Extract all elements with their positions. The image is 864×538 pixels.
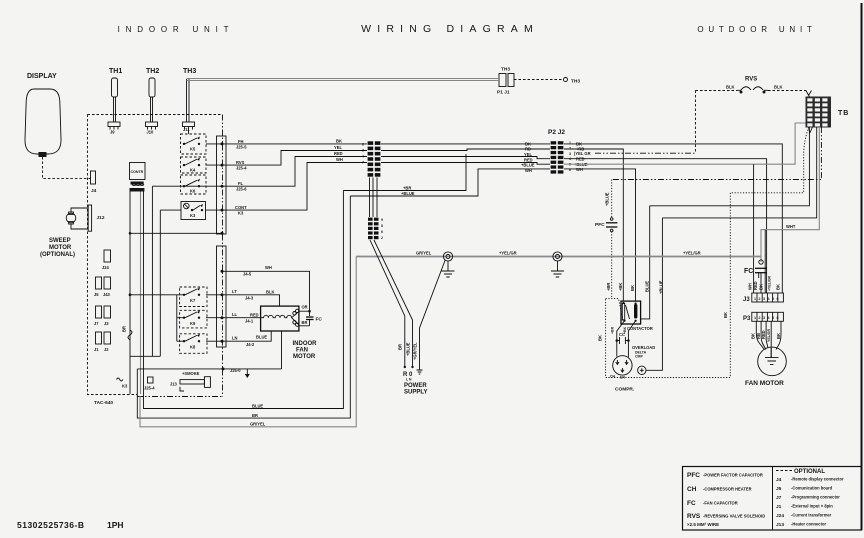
svg-text:GR/YEL: GR/YEL: [416, 251, 432, 256]
svg-text:BK: BK: [776, 284, 781, 290]
svg-text:YEL: YEL: [524, 152, 532, 157]
svg-text:-External input × 8pin: -External input × 8pin: [791, 504, 833, 509]
svg-text:J4-1: J4-1: [245, 319, 254, 324]
svg-text:J4: J4: [91, 188, 97, 194]
svg-text:1PH: 1PH: [107, 520, 124, 530]
svg-text:-FAN CAPACITOR: -FAN CAPACITOR: [703, 501, 738, 506]
svg-text:J2: J2: [104, 347, 109, 352]
svg-text:4: 4: [362, 155, 364, 159]
svg-text:+BK: +BK: [623, 326, 627, 334]
svg-text:LT: LT: [232, 289, 237, 294]
svg-text:INDOOR: INDOOR: [293, 341, 318, 347]
svg-text:123456: 123456: [754, 316, 781, 320]
svg-text:RVS: RVS: [236, 160, 245, 165]
svg-text:-Heater connector: -Heater connector: [791, 522, 826, 527]
svg-text:BK: BK: [776, 333, 781, 339]
svg-text:FL: FL: [238, 181, 244, 186]
svg-text:8: 8: [381, 224, 383, 228]
svg-text:FC: FC: [316, 317, 323, 323]
svg-text:WIRING DIAGRAM: WIRING DIAGRAM: [361, 23, 539, 35]
svg-text:WH: WH: [336, 157, 343, 162]
svg-text:BLK: BLK: [726, 85, 734, 90]
svg-text:TAC-640: TAC-640: [94, 400, 113, 406]
svg-text:J3: J3: [743, 297, 750, 303]
svg-text:PFC: PFC: [687, 472, 700, 479]
svg-text:DISPLAY: DISPLAY: [27, 73, 57, 80]
svg-text:J25-5: J25-5: [236, 145, 247, 150]
svg-text:+BLUE: +BLUE: [521, 163, 535, 168]
svg-text:J11: J11: [183, 127, 190, 132]
svg-text:BK: BK: [723, 312, 728, 318]
svg-text:P1 J1: P1 J1: [497, 90, 510, 96]
svg-text:-Current transformer: -Current transformer: [791, 513, 832, 518]
svg-text:J5: J5: [776, 486, 782, 492]
svg-text:WHT: WHT: [786, 224, 796, 229]
svg-text:3: 3: [362, 149, 364, 153]
svg-text:K7: K7: [190, 298, 196, 303]
svg-text:J12: J12: [97, 215, 105, 221]
svg-text:BK: BK: [598, 335, 603, 341]
svg-text:J25-4: J25-4: [144, 386, 155, 391]
svg-text:WH: WH: [576, 167, 583, 172]
svg-text:WH: WH: [265, 265, 272, 270]
svg-text:TH1: TH1: [109, 68, 122, 75]
svg-text:BK: BK: [525, 141, 531, 146]
svg-text:+BLUE: +BLUE: [405, 342, 410, 356]
svg-text:J43: J43: [103, 292, 111, 297]
svg-text:LN: LN: [232, 336, 238, 341]
svg-text:TH3: TH3: [571, 79, 580, 85]
svg-text:BK: BK: [759, 284, 764, 290]
svg-text:RED: RED: [761, 330, 766, 339]
svg-text:LL: LL: [232, 312, 238, 317]
svg-text:J24: J24: [776, 513, 784, 519]
svg-text:7: 7: [362, 161, 364, 165]
svg-text:+BR: +BR: [403, 185, 411, 190]
svg-text:J13: J13: [776, 522, 784, 528]
svg-text:BR: BR: [398, 344, 403, 350]
svg-text:+SMOKE: +SMOKE: [182, 371, 200, 376]
svg-text:6: 6: [362, 143, 364, 147]
svg-text:OPTIONAL: OPTIONAL: [794, 469, 825, 475]
svg-text:+BLUE: +BLUE: [605, 192, 610, 206]
svg-text:BK: BK: [751, 333, 756, 339]
svg-text:+BLUE: +BLUE: [659, 280, 664, 294]
svg-text:TB: TB: [838, 110, 849, 117]
svg-text:FAN: FAN: [296, 348, 308, 354]
svg-text:K3: K3: [122, 384, 128, 389]
svg-text:J10: J10: [147, 130, 155, 135]
svg-text:MOTOR: MOTOR: [293, 354, 316, 360]
svg-text:-COMPRESSOR HEATER: -COMPRESSOR HEATER: [703, 487, 752, 492]
svg-text:(YEL GR: (YEL GR: [574, 151, 591, 156]
svg-text:-Programming connector: -Programming connector: [791, 495, 840, 500]
svg-text:TH3: TH3: [183, 68, 196, 75]
svg-text:BR: BR: [252, 413, 258, 418]
svg-text:J7: J7: [94, 321, 99, 326]
svg-text:J25-6: J25-6: [236, 187, 247, 192]
svg-text:J3: J3: [104, 321, 109, 326]
svg-text:OUTDOOR UNIT: OUTDOOR UNIT: [697, 25, 816, 34]
svg-text:J4-2: J4-2: [246, 342, 255, 347]
svg-text:K8: K8: [190, 345, 196, 350]
svg-text:×2.5 MM² WIRE: ×2.5 MM² WIRE: [687, 522, 719, 527]
svg-text:CH: CH: [610, 375, 616, 379]
svg-text:+YEL/GR: +YEL/GR: [499, 251, 517, 256]
svg-text:2: 2: [381, 236, 383, 240]
svg-text:J1: J1: [776, 504, 782, 510]
svg-text:K6: K6: [190, 189, 196, 194]
svg-text:BLK: BLK: [266, 290, 274, 295]
svg-text:-POWER FACTOR CAPACITOR: -POWER FACTOR CAPACITOR: [703, 473, 763, 478]
svg-text:K9: K9: [190, 321, 196, 326]
svg-text:RVS: RVS: [745, 77, 757, 83]
svg-text:FC: FC: [744, 268, 753, 275]
svg-text:SWEEP: SWEEP: [49, 238, 71, 244]
svg-text:+BLUE: +BLUE: [401, 191, 415, 196]
svg-text:GR/YEL: GR/YEL: [250, 422, 266, 427]
svg-text:K4: K4: [190, 168, 196, 173]
svg-text:J4-3: J4-3: [245, 296, 254, 301]
svg-text:SUPPLY: SUPPLY: [404, 390, 427, 396]
svg-text:INDOOR UNIT: INDOOR UNIT: [118, 25, 235, 34]
svg-text:2: 2: [569, 146, 571, 150]
svg-text:J25-0: J25-0: [230, 368, 241, 373]
svg-text:4: 4: [569, 157, 571, 161]
svg-text:BLUE: BLUE: [256, 335, 267, 340]
svg-text:OR: OR: [302, 305, 308, 310]
svg-text:BR: BR: [122, 326, 127, 332]
svg-text:BLUE: BLUE: [252, 403, 263, 408]
svg-text:J4: J4: [776, 477, 782, 483]
svg-text:CONT: CONT: [235, 205, 247, 210]
svg-text:FH: FH: [238, 139, 244, 144]
svg-text:K5: K5: [190, 147, 196, 152]
svg-text:RED: RED: [334, 151, 343, 156]
svg-text:6: 6: [381, 230, 383, 234]
svg-text:FC: FC: [687, 500, 696, 507]
svg-text:TH2: TH2: [146, 68, 159, 75]
svg-text:J4-5: J4-5: [243, 272, 252, 277]
svg-text:BLUE: BLUE: [645, 281, 650, 292]
svg-text:K3: K3: [238, 210, 244, 215]
svg-text:CH: CH: [687, 486, 697, 493]
svg-text:P2 J2: P2 J2: [548, 129, 565, 136]
svg-text:+BR: +BR: [611, 326, 615, 334]
svg-text:RED: RED: [524, 157, 533, 162]
svg-text:CONTR: CONTR: [131, 170, 144, 174]
svg-text:RED: RED: [250, 313, 259, 318]
svg-text:J7: J7: [776, 495, 782, 501]
svg-text:PFC: PFC: [595, 222, 605, 228]
svg-text:L N: L N: [406, 378, 412, 382]
svg-text:-Remote display connector: -Remote display connector: [791, 477, 844, 482]
svg-text:FAN MOTOR: FAN MOTOR: [745, 380, 784, 387]
svg-text:(OPTIONAL): (OPTIONAL): [40, 252, 75, 258]
svg-text:J9: J9: [110, 130, 115, 135]
svg-text:+GR/YEL: +GR/YEL: [412, 342, 417, 360]
svg-text:3: 3: [569, 152, 571, 156]
svg-text:J25-4: J25-4: [236, 166, 247, 171]
svg-text:-Comunication board: -Comunication board: [791, 486, 833, 491]
svg-text:WH: WH: [525, 168, 532, 173]
svg-text:RED: RED: [753, 281, 758, 290]
svg-text:J1: J1: [94, 347, 99, 352]
svg-text:POWER: POWER: [404, 383, 427, 389]
svg-text:123456: 123456: [754, 297, 781, 301]
svg-text:+YEL/GR: +YEL/GR: [683, 251, 701, 256]
svg-text:+BR: +BR: [606, 283, 611, 291]
svg-text:COMPR.: COMPR.: [615, 387, 634, 393]
svg-text:BK: BK: [336, 139, 342, 144]
svg-text:J13: J13: [170, 382, 178, 387]
svg-text:+YEL/GR: +YEL/GR: [768, 275, 772, 291]
svg-text:51302525736-B: 51302525736-B: [17, 520, 84, 530]
svg-text:WH: WH: [748, 283, 753, 290]
svg-text:SR: SR: [620, 376, 625, 380]
svg-text:+BK: +BK: [618, 283, 623, 291]
svg-text:P3: P3: [743, 316, 751, 322]
svg-text:9: 9: [381, 218, 383, 222]
svg-text:CMP: CMP: [635, 355, 643, 359]
svg-text:YEL: YEL: [334, 145, 342, 150]
svg-text:BLK: BLK: [774, 85, 782, 90]
svg-text:BK: BK: [630, 285, 635, 291]
svg-text:-REVERSING VALVE SOLENOID: -REVERSING VALVE SOLENOID: [703, 514, 765, 519]
svg-text:RD: RD: [525, 147, 531, 152]
svg-text:BR: BR: [302, 320, 308, 325]
svg-text:1: 1: [569, 141, 571, 145]
svg-text:RVS: RVS: [687, 513, 701, 520]
svg-text:MOTOR: MOTOR: [49, 245, 72, 251]
svg-text:YEL/GR: YEL/GR: [767, 328, 771, 342]
svg-text:OVERLOAD: OVERLOAD: [632, 345, 655, 350]
svg-text:TH3: TH3: [501, 67, 510, 73]
svg-text:J5: J5: [94, 292, 99, 297]
svg-text:K3: K3: [190, 213, 196, 218]
svg-text:J24: J24: [102, 265, 110, 270]
